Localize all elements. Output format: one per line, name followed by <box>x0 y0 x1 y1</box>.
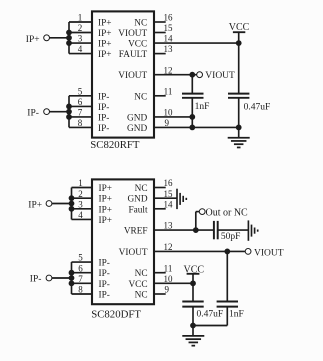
capacitor C1 plates <box>182 94 204 98</box>
U2 label IP+ pin 2 <box>99 195 113 205</box>
U1 label IP+ pin 1 <box>98 19 112 29</box>
U2 pin 14 stub <box>154 208 166 210</box>
svg-text:15: 15 <box>164 23 174 33</box>
svg-text:Fault: Fault <box>128 205 148 215</box>
wire pin12 viout <box>154 74 197 76</box>
wire IP+ to bus <box>49 37 69 39</box>
U1 pin 4 stub <box>69 53 92 55</box>
U1 label IP- pin 6 <box>98 103 109 113</box>
VCC supply bar <box>233 31 245 33</box>
svg-text:14: 14 <box>164 199 174 209</box>
U1 label IP+ pin 4 <box>98 50 112 60</box>
svg-text:NC: NC <box>135 184 148 194</box>
wire vref up <box>196 212 200 231</box>
pin number 8 <box>78 118 83 128</box>
junction dot U2 IP+ pin3 <box>69 206 74 211</box>
terminal U2 IP- circle <box>46 275 52 281</box>
wire pin10 gnd <box>154 116 192 118</box>
wire C5 down <box>226 307 228 326</box>
U1 part name SC820RFT <box>90 139 140 151</box>
pin number 6 <box>78 97 83 107</box>
junction dot U2 IP- pin6 <box>69 270 74 275</box>
svg-text:IP+: IP+ <box>28 201 42 211</box>
svg-text:Out or NC: Out or NC <box>206 207 249 218</box>
terminal U2 IP+ label <box>28 201 42 211</box>
svg-text:VCC: VCC <box>128 280 147 290</box>
svg-text:2: 2 <box>78 23 83 33</box>
U1 label IP- pin 5 <box>98 92 109 102</box>
svg-text:GND: GND <box>127 124 147 134</box>
capacitor C3 value 50pF <box>221 232 241 242</box>
U2 pin number 8 <box>78 285 83 295</box>
wire U2 IP- to bus <box>52 277 72 279</box>
U1 pin 5 stub <box>69 95 92 97</box>
junction dot IP+ pin2 <box>67 30 72 35</box>
svg-text:IP+: IP+ <box>99 216 113 226</box>
U2 pin 16 stub <box>154 187 166 189</box>
U2 pin 3 stub <box>72 208 93 210</box>
wire to GND4 <box>192 326 194 336</box>
pin number 10 <box>164 108 174 118</box>
pin number 14 <box>164 34 174 44</box>
wire pin10 vcc <box>154 282 193 284</box>
svg-text:7: 7 <box>78 108 83 118</box>
svg-text:1: 1 <box>78 13 83 23</box>
svg-text:5: 5 <box>78 86 83 96</box>
U1 label VIOUT pin 12 <box>118 71 147 81</box>
U2 pin number 6 <box>78 263 83 273</box>
svg-text:6: 6 <box>78 263 83 273</box>
capacitor C4 value 0.47uF <box>197 309 224 319</box>
wire IP+ bus vertical <box>68 22 70 54</box>
svg-text:IP-: IP- <box>99 280 110 290</box>
capacitor C3 50pF plates <box>214 221 218 239</box>
svg-text:NC: NC <box>135 269 148 279</box>
U2 pin number 4 <box>78 210 83 220</box>
svg-text:VIOUT: VIOUT <box>118 29 147 39</box>
junction dot gnd rail <box>236 125 241 130</box>
U2 label IP- pin 7 <box>99 280 110 290</box>
junction dot ground rail <box>191 323 196 328</box>
wire pin13 vref <box>154 229 214 231</box>
wire U2 IP- bus <box>71 262 73 294</box>
svg-text:3: 3 <box>78 199 83 209</box>
wire C3 to ground <box>218 229 249 231</box>
U2 pin number 11 <box>164 263 173 273</box>
U2 label NC pin 9 <box>135 291 148 301</box>
U2 pin number 3 <box>78 199 83 209</box>
wire U2 IP+ to bus <box>52 203 72 205</box>
U1 pin 1 stub <box>69 21 92 23</box>
junction dot C1 pin10 <box>190 115 195 120</box>
U2 label Fault pin 14 <box>128 205 148 215</box>
wire VCC down <box>238 32 240 93</box>
wire pin14 to VCC <box>154 42 239 44</box>
U2 pin number 10 <box>164 274 174 284</box>
svg-text:11: 11 <box>164 86 173 96</box>
U1 pin 15 stub <box>154 32 166 34</box>
svg-text:IP+: IP+ <box>98 19 112 29</box>
svg-text:5: 5 <box>78 253 83 263</box>
terminal IP- label <box>27 109 39 119</box>
svg-text:VIOUT: VIOUT <box>254 249 284 259</box>
terminal VIOUT2 label <box>254 249 284 259</box>
U2 label IP+ pin 4 <box>99 216 113 226</box>
U2 pin 4 stub <box>72 218 93 220</box>
U1 label GND pin 9 <box>127 124 147 134</box>
svg-text:SC820DFT: SC820DFT <box>91 309 141 321</box>
pin number 11 <box>164 86 173 96</box>
svg-text:IP+: IP+ <box>26 35 40 45</box>
terminal U2 IP+ circle <box>46 201 52 207</box>
svg-text:1nF: 1nF <box>229 309 244 319</box>
U1 label IP+ pin 3 <box>98 40 112 50</box>
junction dot IP+ entry <box>67 35 72 40</box>
terminal U2 IP- label <box>30 275 42 285</box>
svg-text:GND: GND <box>127 113 147 123</box>
U2 label GND pin 15 <box>127 195 147 205</box>
U1 label VIOUT pin 15 <box>118 29 147 39</box>
junction dot U2 IP+ pin2 <box>69 196 74 201</box>
wire pin15 to ground <box>154 197 177 199</box>
U2 pin number 5 <box>78 253 83 263</box>
U1 label IP+ pin 2 <box>98 29 112 39</box>
capacitor C5 plates <box>217 302 238 307</box>
U2 label VCC pin 10 <box>128 280 147 290</box>
U2 pin number 16 <box>164 178 174 188</box>
U2 pin 2 stub <box>72 197 93 199</box>
junction dot U2 IP+ entry <box>69 201 74 206</box>
U1 label IP- pin 8 <box>98 124 109 134</box>
U1 pin 16 stub <box>154 21 166 23</box>
svg-text:SC820RFT: SC820RFT <box>90 139 140 151</box>
U2 label NC pin 16 <box>135 184 148 194</box>
U2 label VREF pin 13 <box>124 227 148 237</box>
junction dot vref <box>193 228 198 233</box>
U1 label NC pin 16 <box>134 19 147 29</box>
ground GND3 rotated <box>248 220 257 240</box>
capacitor C2 value 0.47uF <box>244 102 271 112</box>
svg-text:NC: NC <box>135 291 148 301</box>
wire C1 down <box>191 98 193 128</box>
svg-text:IP-: IP- <box>27 109 39 119</box>
U2 pin number 2 <box>78 189 83 199</box>
junction dot viout <box>190 72 195 77</box>
wire to ground <box>238 127 240 137</box>
VCC supply label <box>229 22 250 33</box>
U2 label VIOUT pin 12 <box>119 248 148 258</box>
U2 label IP- pin 8 <box>99 291 110 301</box>
wire pin12 viout2 <box>154 250 246 252</box>
svg-text:16: 16 <box>164 13 174 23</box>
svg-text:IP+: IP+ <box>99 195 113 205</box>
svg-text:1: 1 <box>78 178 83 188</box>
U2 pin number 9 <box>164 285 169 295</box>
junction dot C1 pin9 <box>190 125 195 130</box>
junction dot IP- pin7 <box>67 115 72 120</box>
U2 pin 9 stub <box>154 293 166 295</box>
junction dot vcc pin10 <box>191 281 196 286</box>
U2 part name SC820DFT <box>91 309 141 321</box>
terminal IP+ circle <box>44 35 50 41</box>
svg-text:IP-: IP- <box>30 275 42 285</box>
ground GND1 <box>228 138 250 148</box>
junction dot IP- pin6 <box>67 104 72 109</box>
U2 pin 7 stub <box>72 282 93 284</box>
U1 label NC pin 11 <box>134 92 147 102</box>
pin number 1 <box>78 13 83 23</box>
junction dot U2 IP- entry <box>69 276 74 281</box>
svg-text:12: 12 <box>164 242 173 252</box>
op-amp U1 IC box SC820RFT <box>92 11 154 137</box>
U2 pin number 15 <box>164 189 174 199</box>
U2 pin 11 stub <box>154 272 166 274</box>
junction dot U2 IP- pin7 <box>69 281 74 286</box>
svg-text:14: 14 <box>164 34 174 44</box>
U1 label GND pin 10 <box>127 113 147 123</box>
svg-text:16: 16 <box>164 178 174 188</box>
capacitor C5 value 1nF <box>229 309 244 319</box>
U2 pin number 12 <box>164 242 173 252</box>
terminal VIOUT circle <box>197 72 203 78</box>
ground GND4 <box>182 336 204 346</box>
VCC2 supply bar <box>187 273 200 275</box>
junction dot VCC pin14 <box>236 41 241 46</box>
svg-text:10: 10 <box>164 274 174 284</box>
svg-text:0.47uF: 0.47uF <box>197 309 224 319</box>
svg-text:8: 8 <box>78 285 83 295</box>
U1 label VCC pin 14 <box>128 40 147 50</box>
junction dot viout2 <box>225 249 230 254</box>
pin number 9 <box>164 118 169 128</box>
svg-text:3: 3 <box>78 34 83 44</box>
pin number 5 <box>78 86 83 96</box>
svg-text:1nF: 1nF <box>195 102 210 112</box>
svg-text:6: 6 <box>78 97 83 107</box>
U2 label IP+ pin 1 <box>99 184 113 194</box>
svg-text:7: 7 <box>78 274 83 284</box>
U1 pin 11 stub <box>154 95 166 97</box>
svg-text:NC: NC <box>134 19 147 29</box>
svg-text:2: 2 <box>78 189 83 199</box>
U1 pin 8 stub <box>69 126 92 128</box>
U1 pin 7 stub <box>69 116 92 118</box>
svg-text:4: 4 <box>78 44 83 54</box>
U2 pin number 14 <box>164 199 174 209</box>
wire C2 down <box>238 98 240 128</box>
pin number 3 <box>78 34 83 44</box>
U1 pin 3 stub <box>69 42 92 44</box>
svg-text:IP+: IP+ <box>99 184 113 194</box>
svg-text:4: 4 <box>78 210 83 220</box>
wire pin9 gnd rail <box>154 126 239 128</box>
junction dot IP+ pin3 <box>67 41 72 46</box>
svg-text:9: 9 <box>164 118 169 128</box>
terminal VIOUT label <box>205 71 235 81</box>
svg-text:IP-: IP- <box>99 259 110 269</box>
U2 label IP- pin 6 <box>99 269 110 279</box>
svg-text:IP-: IP- <box>99 291 110 301</box>
wire viout down to C1 <box>191 75 193 94</box>
wire IP- bus vertical <box>68 96 70 128</box>
svg-text:0.47uF: 0.47uF <box>244 102 271 112</box>
capacitor C4 plates <box>182 302 203 307</box>
svg-text:VREF: VREF <box>124 227 148 237</box>
pin number 13 <box>164 44 174 54</box>
pin number 15 <box>164 23 174 33</box>
svg-text:IP-: IP- <box>99 269 110 279</box>
svg-text:15: 15 <box>164 189 174 199</box>
svg-text:NC: NC <box>134 92 147 102</box>
U1 label IP- pin 7 <box>98 113 109 123</box>
svg-text:50pF: 50pF <box>221 232 241 242</box>
wire U2 IP+ bus <box>71 188 73 220</box>
pin number 16 <box>164 13 174 23</box>
wire C4 down <box>192 307 194 326</box>
terminal Out-or-NC circle <box>199 209 205 215</box>
svg-text:IP+: IP+ <box>98 50 112 60</box>
svg-text:VIOUT: VIOUT <box>205 71 235 81</box>
pin number 4 <box>78 44 83 54</box>
wire VCC2 down <box>192 274 194 302</box>
svg-text:IP-: IP- <box>98 92 109 102</box>
svg-text:11: 11 <box>164 263 173 273</box>
svg-text:12: 12 <box>164 65 173 75</box>
pin number 7 <box>78 108 83 118</box>
U2 pin 8 stub <box>72 293 93 295</box>
capacitor C2 plates <box>228 94 249 98</box>
U1 pin 6 stub <box>69 105 92 107</box>
pin number 2 <box>78 23 83 33</box>
U1 label FAULT pin 13 <box>119 50 148 60</box>
VCC2 supply label <box>184 264 205 275</box>
wire IP- to bus <box>49 111 69 113</box>
U2 label IP+ pin 3 <box>99 205 113 215</box>
terminal Out-or-NC label <box>206 207 249 218</box>
svg-text:VIOUT: VIOUT <box>119 248 148 258</box>
U2 label NC pin 11 <box>135 269 148 279</box>
svg-text:10: 10 <box>164 108 174 118</box>
svg-text:8: 8 <box>78 118 83 128</box>
U2 pin 5 stub <box>72 261 93 263</box>
svg-text:IP+: IP+ <box>98 29 112 39</box>
U1 pin 13 stub <box>154 53 166 55</box>
op-amp U2 IC box SC820DFT <box>92 179 154 304</box>
terminal IP+ label <box>26 35 40 45</box>
svg-text:GND: GND <box>127 195 147 205</box>
svg-text:13: 13 <box>164 221 174 231</box>
wire ground rail <box>193 325 227 327</box>
U2 label IP- pin 5 <box>99 259 110 269</box>
U2 pin 1 stub <box>72 187 93 189</box>
terminal VIOUT2 circle <box>245 249 251 255</box>
svg-text:IP-: IP- <box>98 103 109 113</box>
U1 pin 2 stub <box>69 32 92 34</box>
capacitor C1 value 1nF <box>195 102 210 112</box>
svg-text:IP+: IP+ <box>98 40 112 50</box>
U2 pin 6 stub <box>72 272 93 274</box>
svg-text:FAULT: FAULT <box>119 50 148 60</box>
svg-text:VIOUT: VIOUT <box>118 71 147 81</box>
wire viout2 down to C5 <box>226 251 228 301</box>
ground GND2 rotated <box>177 189 186 209</box>
svg-text:IP+: IP+ <box>99 205 113 215</box>
svg-text:VCC: VCC <box>128 40 147 50</box>
U2 pin number 1 <box>78 178 83 188</box>
svg-text:13: 13 <box>164 44 174 54</box>
terminal IP- circle <box>44 109 50 115</box>
pin number 12 <box>164 65 173 75</box>
U2 pin number 13 <box>164 221 174 231</box>
svg-text:9: 9 <box>164 285 169 295</box>
svg-text:IP-: IP- <box>98 124 109 134</box>
junction dot IP- entry <box>67 109 72 114</box>
svg-text:IP-: IP- <box>98 113 109 123</box>
U2 pin number 7 <box>78 274 83 284</box>
